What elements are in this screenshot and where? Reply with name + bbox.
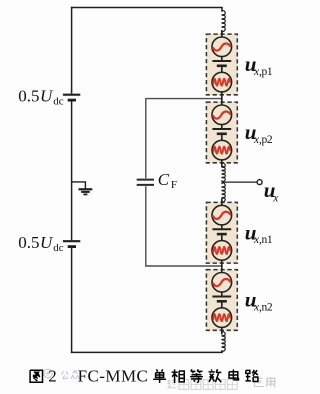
svg-text:,n1: ,n1 [259,234,273,246]
svg-text:0.5: 0.5 [18,87,39,106]
svg-text:dc: dc [53,96,64,108]
svg-text:x: x [272,192,279,204]
svg-text:U: U [40,233,54,252]
svg-text:,p2: ,p2 [259,134,273,146]
svg-text:dc: dc [53,242,64,254]
svg-text:,p1: ,p1 [259,66,273,78]
svg-text:,n2: ,n2 [259,301,273,313]
svg-text:0.5: 0.5 [18,233,39,252]
svg-text:U: U [40,87,54,106]
svg-text:2: 2 [48,366,57,385]
svg-text:F: F [171,179,177,191]
svg-text:C: C [158,170,170,189]
svg-text:FC-MMC: FC-MMC [78,366,149,385]
